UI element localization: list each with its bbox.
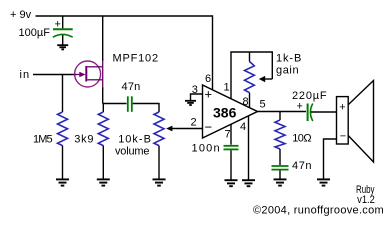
wire 3k9 top lead xyxy=(102,104,104,113)
wire wiper to pin2 xyxy=(172,128,203,130)
wire drain to rail xyxy=(102,16,104,61)
wire pin5 output xyxy=(258,111,307,113)
svg-text:100µF: 100µF xyxy=(19,27,51,39)
wiper arrow volume xyxy=(166,126,172,132)
speaker xyxy=(337,81,374,163)
svg-text:8: 8 xyxy=(243,96,249,108)
svg-text:47n: 47n xyxy=(122,81,141,93)
ground under volume pot xyxy=(153,179,166,185)
wire pot bottom lead xyxy=(158,146,160,180)
svg-text:7: 7 xyxy=(225,129,231,141)
ground under speaker xyxy=(317,179,330,185)
svg-text:4: 4 xyxy=(240,121,246,133)
svg-text:gain: gain xyxy=(276,64,299,76)
svg-text:−: − xyxy=(205,120,213,135)
svg-text:386: 386 xyxy=(213,104,237,120)
wire source down xyxy=(102,88,104,104)
capacitor C 47n zobel xyxy=(272,166,289,170)
capacitor C 100n xyxy=(224,146,239,150)
wire 1M5 top lead xyxy=(62,75,64,113)
svg-text:10k-B: 10k-B xyxy=(118,134,152,146)
wire zobel 10R top lead xyxy=(279,112,281,121)
wire gain pot top stub xyxy=(249,52,251,62)
svg-text:+ 9v: + 9v xyxy=(10,9,32,21)
svg-text:1: 1 xyxy=(224,82,230,94)
capacitor C 100uF xyxy=(53,19,73,38)
wire gain pot bottom stub to pin8 xyxy=(249,93,251,108)
svg-text:MPF102: MPF102 xyxy=(113,53,159,65)
wire 100uF top lead xyxy=(62,16,64,28)
op-amp U 386 xyxy=(203,85,258,138)
svg-text:+: + xyxy=(339,102,345,114)
svg-text:+: + xyxy=(205,86,213,101)
wire input xyxy=(33,74,76,76)
svg-text:−: − xyxy=(340,131,346,143)
svg-text:in: in xyxy=(20,69,31,81)
resistor R 3k9 xyxy=(98,112,108,146)
wire 47n to volume pot xyxy=(133,104,159,113)
svg-text:3k9: 3k9 xyxy=(74,133,94,145)
svg-text:+: + xyxy=(55,19,61,31)
wire 3k9 bottom lead xyxy=(102,146,104,180)
svg-text:1M5: 1M5 xyxy=(33,133,52,145)
resistor R 10R xyxy=(275,120,285,149)
potentiometer VR 1k-B gain xyxy=(245,62,255,93)
ground under 3k9 xyxy=(97,179,110,185)
wire pin7 down xyxy=(230,124,232,144)
potentiometer VR 10k-B volume xyxy=(154,112,164,146)
wire top +9v rail xyxy=(36,16,213,90)
wiper arrow gain xyxy=(259,76,265,82)
ground under 1M5 xyxy=(56,179,69,185)
svg-text:100n: 100n xyxy=(192,143,221,155)
svg-text:5: 5 xyxy=(260,99,266,111)
ground under 100n xyxy=(225,180,238,186)
wire pin1 up and over to gain network xyxy=(231,52,272,99)
wire 100uF bottom lead xyxy=(62,35,64,45)
wire 1M5 bottom lead xyxy=(62,146,64,180)
transistor Q MPF102 JFET xyxy=(75,59,103,90)
svg-text:2: 2 xyxy=(191,117,197,129)
wire pin3 to ground xyxy=(191,94,203,101)
capacitor C 220uF output xyxy=(308,104,313,122)
ground under 100uF xyxy=(57,45,68,49)
ground under zobel xyxy=(274,179,287,185)
wire 220uF to speaker xyxy=(311,111,337,113)
ground at pin3 xyxy=(185,101,196,105)
ground at pin4 xyxy=(242,180,255,186)
wire 47n zobel to ground xyxy=(279,171,281,180)
wire gain wiper xyxy=(264,78,272,80)
svg-text:10Ω: 10Ω xyxy=(292,133,311,145)
svg-text:1k-B: 1k-B xyxy=(276,52,302,64)
wire source junction to 47n xyxy=(103,103,127,105)
svg-text:6: 6 xyxy=(205,73,211,85)
svg-text:volume: volume xyxy=(115,146,149,158)
wire pin4 to ground xyxy=(248,116,250,180)
capacitor C 47n series xyxy=(128,96,132,112)
svg-text:+: + xyxy=(297,101,303,113)
svg-text:47n: 47n xyxy=(292,160,312,172)
svg-text:©2004, runoffgroove.com: ©2004, runoffgroove.com xyxy=(253,204,384,216)
resistor R 1M5 xyxy=(58,112,68,146)
wire speaker minus to ground xyxy=(324,139,337,179)
wire 100n to ground xyxy=(230,150,232,180)
wire 10R to 47n xyxy=(279,149,281,165)
